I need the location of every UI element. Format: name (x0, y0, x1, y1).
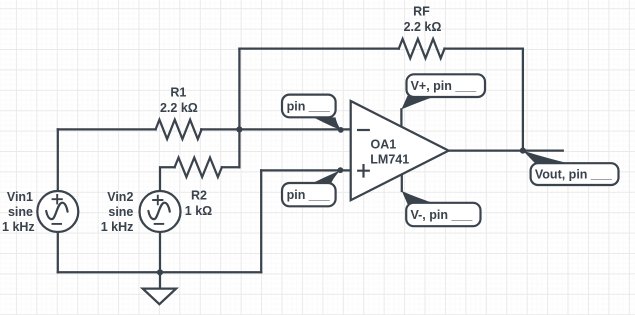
annotation leader wedge to V- stub (402, 191, 436, 204)
leader dot on non-inverting input wire (338, 167, 344, 173)
annotation leader wedge to output node (523, 151, 572, 165)
Vin2 plus sign (152, 195, 163, 205)
svg-text:LM741: LM741 (370, 153, 409, 167)
wire: R2 left segment to Vin2 (160, 167, 175, 191)
svg-text:V+, pin ___: V+, pin ___ (411, 79, 478, 93)
resistor R2 (175, 158, 222, 177)
svg-text:Vin2: Vin2 (107, 190, 133, 204)
svg-text:pin ___: pin ___ (287, 188, 331, 202)
annotation box Vout pin (531, 163, 619, 185)
source Vin1 circle (37, 191, 78, 232)
svg-text:Vout, pin ___: Vout, pin ___ (535, 168, 613, 182)
annotation box pin (non-inverting) (282, 183, 336, 206)
annotation box V+ pin (407, 74, 486, 97)
junction dot at bottom rail / ground (157, 269, 163, 275)
wire: right vertical from non-inverting input to bottom rail (260, 170, 262, 272)
svg-text:OA1: OA1 (371, 138, 397, 152)
wire: feedback right vertical down to output (522, 49, 524, 151)
Vin1 sine glyph (46, 203, 67, 219)
annotation leader wedge to inverting input (314, 117, 341, 129)
Vin2 minus sign (154, 223, 165, 225)
annotation box V- pin (406, 203, 480, 226)
svg-text:sine: sine (8, 205, 33, 219)
wire: R1 right segment to op-amp inverting input (201, 128, 351, 130)
svg-text:sine: sine (108, 205, 133, 219)
junction dot at output node (520, 148, 526, 154)
Vin2 sine glyph (148, 203, 169, 219)
wire: bottom ground rail (58, 271, 261, 273)
annotation box pin (inverting) (282, 95, 336, 118)
wire: output horizontal with stub (449, 149, 563, 151)
source Vin2 circle (140, 191, 181, 232)
wire: Vin1 bottom vertical (57, 232, 59, 272)
wire: Vin1 top vertical (57, 129, 59, 191)
wire: Vin2 bottom vertical (159, 232, 161, 272)
svg-text:2.2 kΩ: 2.2 kΩ (404, 20, 442, 34)
wire: V- stub below op-amp (401, 174, 403, 191)
annotation leader wedge to V+ stub (401, 96, 437, 110)
svg-text:1 kHz: 1 kHz (2, 220, 35, 234)
op-amp non-inverting input plus sign (357, 164, 370, 178)
svg-text:R2: R2 (191, 188, 207, 202)
wire: feedback top horizontal (left part) (239, 47, 398, 49)
wire: V+ stub above op-amp (400, 109, 402, 126)
svg-text:pin ___: pin ___ (287, 100, 331, 114)
op-amp inverting input minus sign (357, 129, 370, 131)
svg-text:1 kHz: 1 kHz (101, 220, 134, 234)
svg-text:Vin1: Vin1 (7, 190, 33, 204)
Vin1 minus sign (52, 223, 63, 225)
wire: feedback left vertical down to inverting node and R2 (238, 49, 240, 168)
resistor R1 (156, 120, 202, 139)
resistor RF (399, 39, 445, 58)
ground stem (159, 272, 161, 288)
leader dot on inverting input wire (338, 127, 344, 133)
wire: feedback top horizontal (right part) (445, 47, 523, 49)
wire: R1 left segment from Vin1 top corner (58, 128, 156, 130)
svg-text:2.2 kΩ: 2.2 kΩ (160, 101, 198, 115)
wire: non-inverting input horizontal (261, 169, 351, 171)
svg-text:1 kΩ: 1 kΩ (185, 204, 212, 218)
svg-text:RF: RF (413, 5, 430, 19)
wire: R2 right segment to inverting node vertical (222, 166, 240, 168)
Vin1 plus sign (52, 194, 63, 204)
svg-text:R1: R1 (170, 85, 186, 99)
ground symbol triangle (143, 289, 176, 305)
annotation leader wedge to non-inverting input (313, 170, 341, 183)
svg-text:V-, pin ___: V-, pin ___ (411, 208, 474, 222)
junction dot at inverting node (236, 126, 242, 132)
op-amp OA1 triangle (351, 101, 449, 200)
